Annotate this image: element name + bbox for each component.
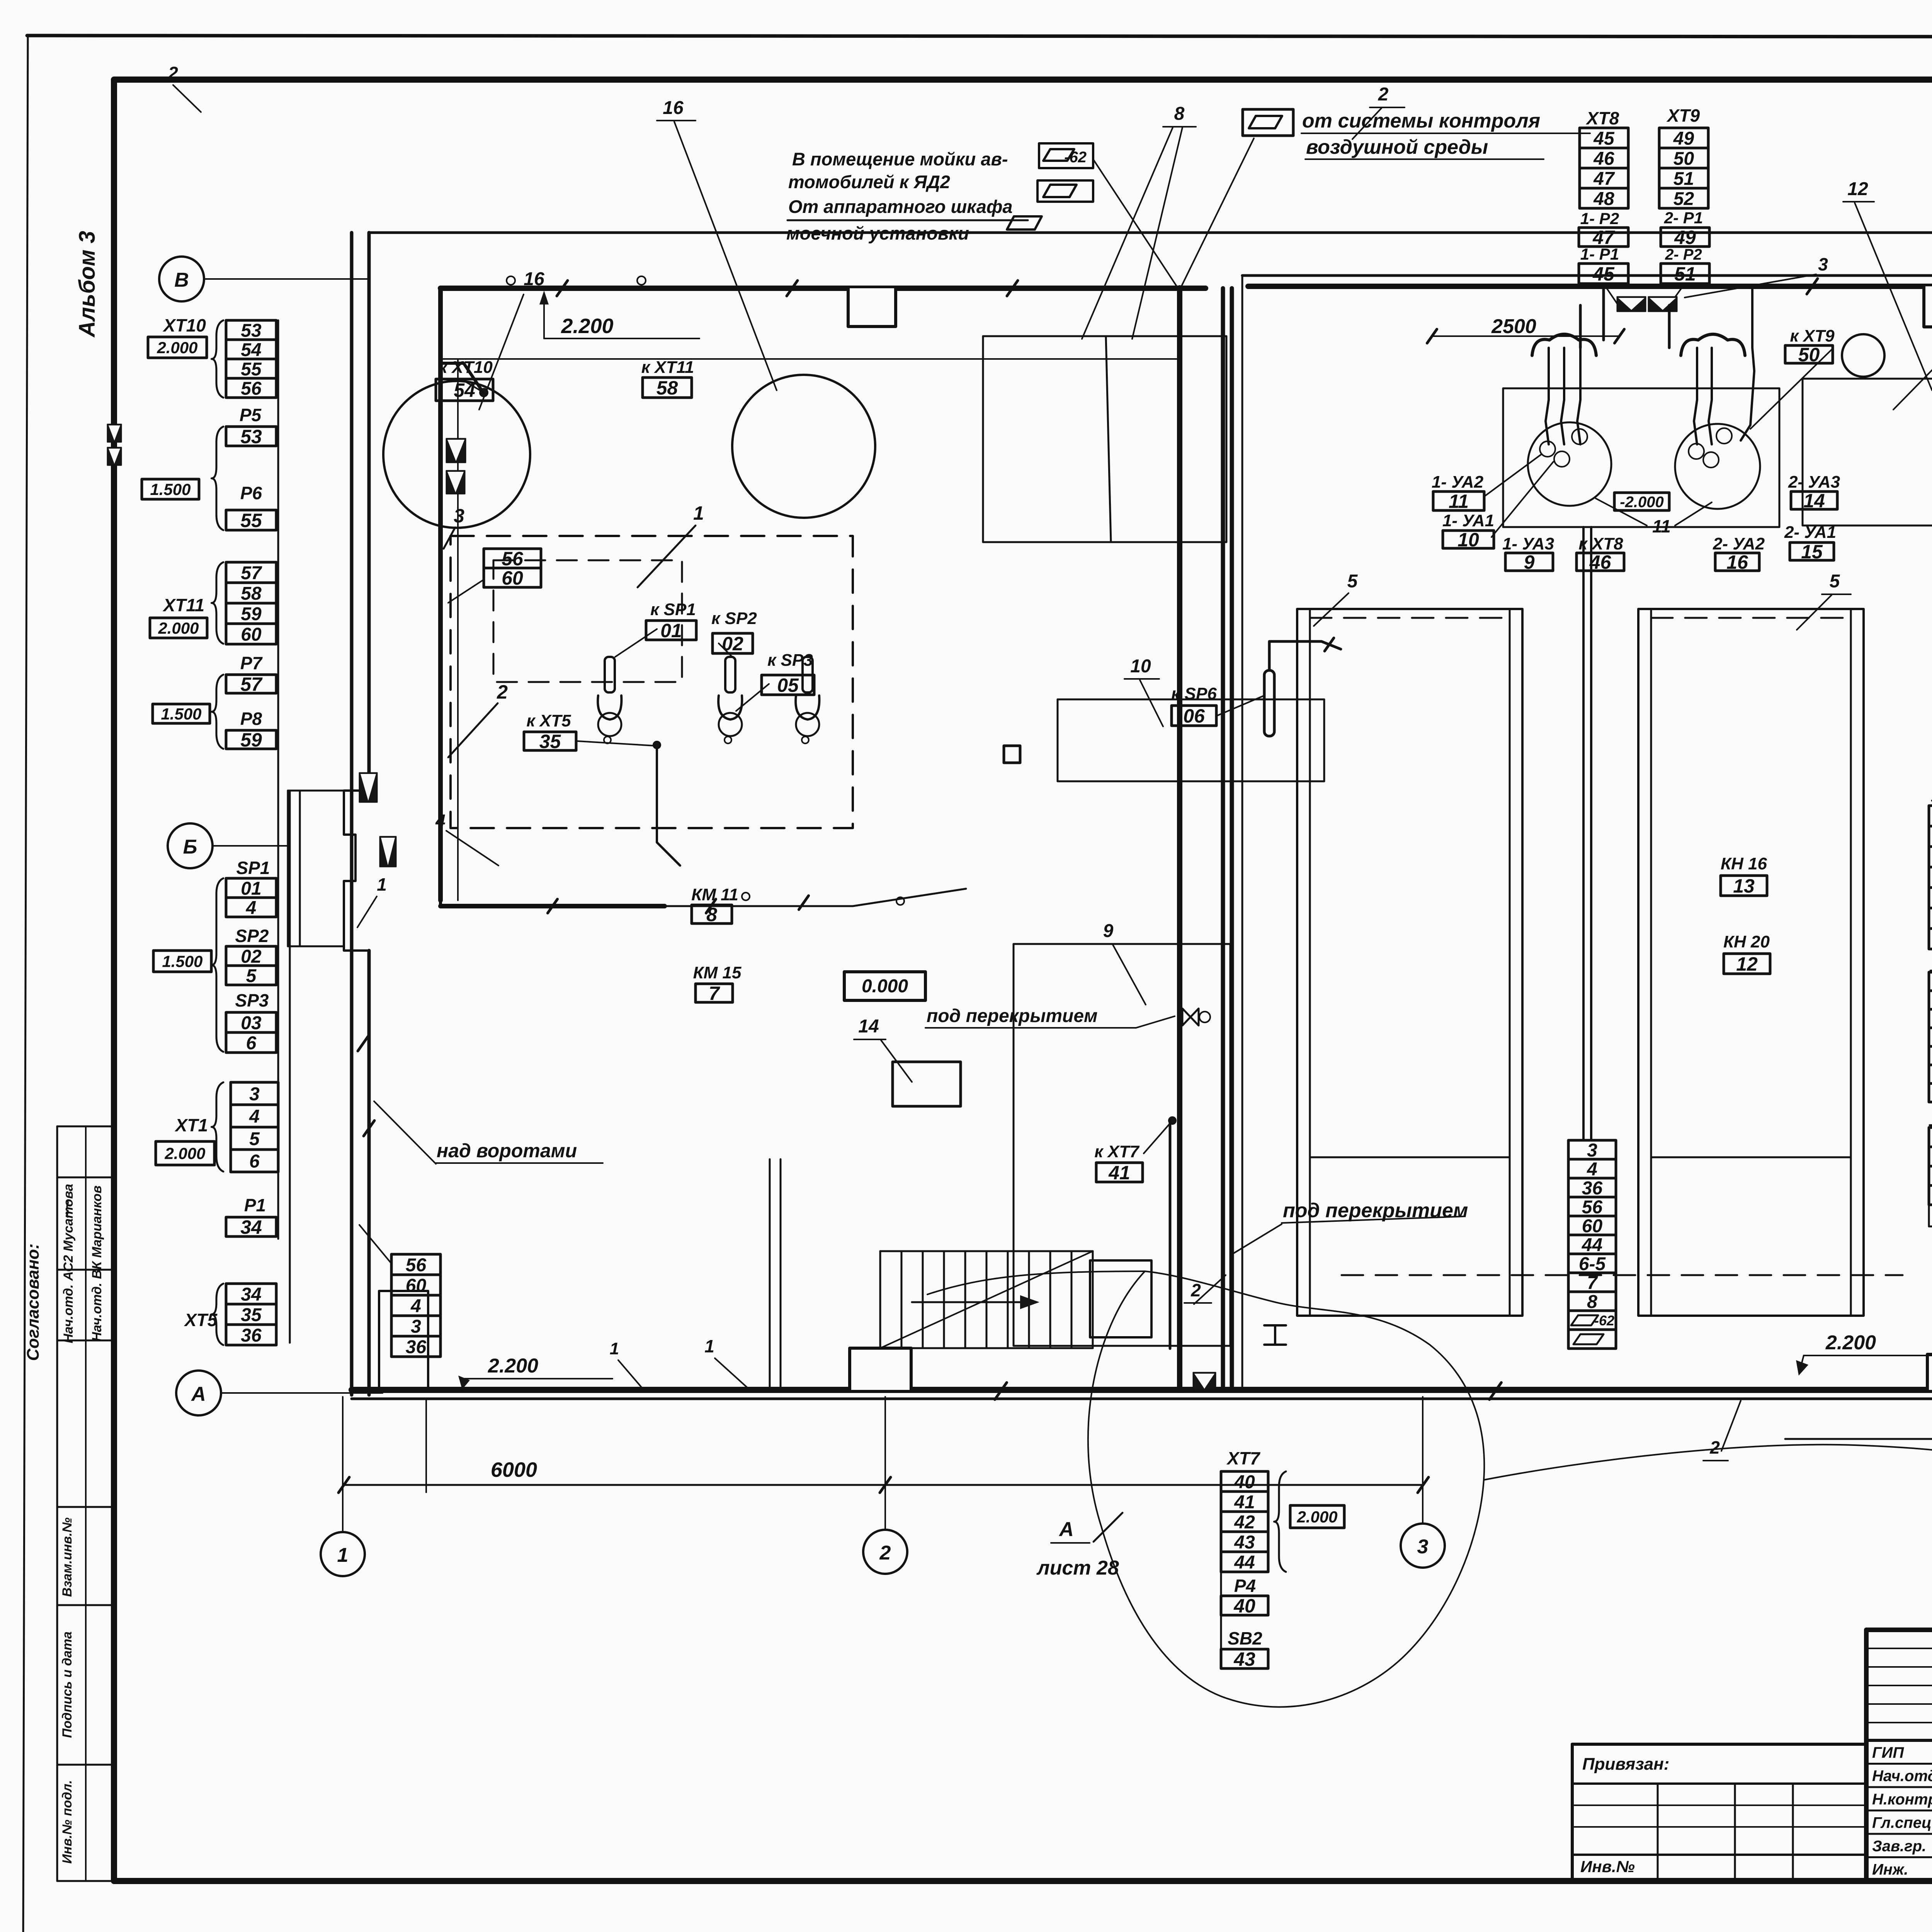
- leader 12 right: [1893, 354, 1932, 410]
- top cable tray center: [1248, 284, 1932, 289]
- svg-text:1.500: 1.500: [161, 705, 201, 723]
- svg-text:43: 43: [1234, 1532, 1255, 1553]
- freehand curve tail: [927, 1271, 1145, 1294]
- title thin row 4458: [1866, 1722, 1932, 1723]
- tank circle 2: [732, 375, 875, 518]
- label 2 cb underline: [1184, 1302, 1211, 1304]
- svg-text:2: 2: [497, 681, 508, 703]
- svg-text:2.000: 2.000: [156, 338, 197, 357]
- elevation box -2.000: [1614, 493, 1669, 510]
- terminal column AD1: [1929, 1128, 1932, 1206]
- leader 2 top left: [173, 85, 201, 112]
- bay annex wall left: [287, 791, 289, 946]
- svg-text:5: 5: [1347, 571, 1358, 592]
- privyazan col 4290: [1657, 1784, 1659, 1881]
- pilaster near grid A: [379, 1291, 428, 1390]
- leader 5 basin B: [1797, 595, 1832, 630]
- frame sleeve left 1: [107, 424, 121, 442]
- pump pit circle right: [1675, 424, 1760, 509]
- grid circle A: [176, 1371, 221, 1415]
- arrowhead 2.200 bl: [458, 1376, 470, 1389]
- svg-text:12: 12: [1736, 953, 1758, 975]
- label 5B underline: [1822, 594, 1851, 595]
- svg-text:48: 48: [1593, 189, 1614, 209]
- junction circle u2: [896, 897, 904, 905]
- svg-text:2: 2: [1378, 84, 1389, 105]
- svg-text:6-5: 6-5: [1579, 1254, 1606, 1274]
- connector column XT7: [1221, 1471, 1268, 1573]
- svg-text:SВ2: SВ2: [1228, 1628, 1262, 1648]
- freehand curve tail 2: [1484, 1445, 1932, 1484]
- svg-text:56: 56: [406, 1255, 427, 1276]
- air system underline 2: [1305, 158, 1544, 160]
- box 53 of P5: [226, 426, 276, 447]
- outer border left: [23, 36, 28, 1932]
- column SP2: [226, 946, 276, 986]
- riser cable left pit 1: [1561, 348, 1564, 444]
- svg-text:41: 41: [1234, 1492, 1255, 1512]
- right pit cable hood: [1681, 334, 1745, 355]
- svg-text:2.200: 2.200: [561, 315, 613, 338]
- svg-text:16: 16: [663, 98, 684, 118]
- header AD1 underline: [1930, 1124, 1932, 1126]
- svg-text:Инв.№: Инв.№: [1580, 1857, 1635, 1876]
- cable k XT5 drop: [657, 746, 680, 866]
- box 7 of KM15: [696, 983, 733, 1004]
- unit 1 dashed outline: [451, 536, 853, 828]
- label 14 underline: [854, 1039, 886, 1040]
- sensor SP1 symbol: [598, 657, 621, 743]
- junction small circle top2: [637, 276, 646, 285]
- title thin row 4410: [1866, 1703, 1932, 1705]
- elevation 2.200 br underline: [1804, 1355, 1932, 1356]
- svg-text:к SР3: к SР3: [767, 651, 813, 670]
- svg-text:-2.000: -2.000: [1620, 493, 1663, 510]
- pump pit rectangle: [1503, 388, 1779, 527]
- svg-text:55: 55: [241, 359, 262, 379]
- leader 11 left: [1596, 498, 1647, 526]
- left wall outer: [350, 233, 354, 1395]
- svg-text:02: 02: [241, 946, 262, 967]
- svg-text:40: 40: [1233, 1595, 1255, 1617]
- cable from SP6 up: [1269, 641, 1341, 670]
- partition wall left of center: [1242, 276, 1243, 1390]
- leader 1-UA2: [1484, 454, 1542, 497]
- svg-text:1- УА3: 1- УА3: [1502, 534, 1554, 553]
- svg-text:51: 51: [1674, 263, 1696, 285]
- svg-text:4: 4: [249, 1106, 260, 1127]
- air system box: [1243, 109, 1293, 136]
- svg-text:59: 59: [241, 604, 262, 624]
- brace SP: [211, 878, 223, 1052]
- grid leader V: [204, 278, 369, 280]
- box 11 of 1-UA2: [1433, 491, 1484, 512]
- leader chislo 1 bottom: [618, 1360, 641, 1387]
- arrowhead 2.200 br: [1796, 1360, 1808, 1376]
- svg-text:45: 45: [1592, 263, 1615, 285]
- annotation underline 3: [787, 219, 1028, 221]
- cable pair 3188: [1230, 288, 1234, 1390]
- unit 1 inner dashed: [493, 560, 682, 682]
- drop cable xt8: [1602, 288, 1605, 340]
- dim tick 2: [880, 1477, 891, 1493]
- svg-text:59: 59: [240, 729, 262, 751]
- drop cable kxt9: [1741, 288, 1754, 440]
- kxt7 dot: [1169, 1117, 1176, 1124]
- arrowhead 2.200 top: [539, 291, 549, 304]
- svg-text:Согласовано:: Согласовано:: [24, 1243, 43, 1361]
- svg-text:Р1: Р1: [244, 1195, 266, 1215]
- box 10 of 1-UA1: [1443, 529, 1494, 551]
- connector column XT5: [226, 1284, 276, 1346]
- svg-text:9: 9: [1103, 921, 1114, 941]
- riser cable right pit 0: [1694, 348, 1697, 444]
- privyazan row 4: [1572, 1854, 1866, 1856]
- pump pit circle left: [1528, 422, 1611, 506]
- svg-text:3: 3: [411, 1316, 421, 1337]
- svg-text:ХТ9: ХТ9: [1666, 105, 1700, 126]
- leader 8 b: [1132, 128, 1182, 339]
- privyazan row 1: [1572, 1782, 1866, 1785]
- connector column XT8: [1580, 128, 1628, 209]
- dim 2500 tick R: [1614, 329, 1624, 343]
- svg-text:49: 49: [1674, 227, 1696, 248]
- svg-text:05: 05: [777, 675, 799, 696]
- box 58 of k XT11: [643, 377, 692, 399]
- box 02 of k SP2: [713, 633, 753, 655]
- margin strip divider strip row a: [57, 1177, 114, 1179]
- svg-text:42: 42: [1234, 1512, 1255, 1532]
- header AS3 underline: [1930, 970, 1932, 972]
- room 12 left rectangle: [1803, 379, 1932, 526]
- svg-text:1: 1: [337, 1544, 349, 1566]
- svg-text:ХТ7: ХТ7: [1226, 1448, 1261, 1468]
- annotation leader A: [1093, 159, 1179, 289]
- svg-text:2: 2: [1709, 1437, 1720, 1458]
- privyazan top: [1572, 1743, 1866, 1746]
- box 49 of 2-P1: [1661, 227, 1709, 248]
- svg-text:8: 8: [1174, 104, 1185, 124]
- svg-text:ХТ11: ХТ11: [162, 595, 205, 615]
- annotation parallelogram 1: [1043, 149, 1074, 161]
- left pit cable hood: [1532, 334, 1596, 355]
- cable list row -62: [1568, 1311, 1616, 1330]
- svg-text:56: 56: [1582, 1197, 1603, 1218]
- leader 2 top right: [1352, 108, 1381, 139]
- svg-text:ХТ10: ХТ10: [162, 315, 206, 335]
- svg-text:53: 53: [240, 426, 262, 447]
- grid axis line 2: [884, 1397, 886, 1530]
- sensor SP6 symbol: [1264, 670, 1274, 736]
- cable pair 3165: [1221, 288, 1225, 1390]
- box 55 of P6: [226, 510, 276, 531]
- grid leader B: [213, 845, 287, 847]
- svg-text:2.000: 2.000: [1296, 1508, 1337, 1526]
- svg-text:2500: 2500: [1491, 315, 1536, 338]
- label 9 underline: [1097, 943, 1121, 945]
- svg-text:1.500: 1.500: [162, 952, 202, 971]
- svg-text:Привязан:: Привязан:: [1582, 1755, 1669, 1774]
- svg-text:14: 14: [1803, 490, 1825, 512]
- svg-text:5: 5: [1830, 571, 1840, 592]
- margin strip right line: [114, 1126, 116, 1881]
- floor drain sleeve 2: [1648, 297, 1677, 311]
- privyazan row 3: [1572, 1826, 1866, 1828]
- leader kXT9: [1750, 350, 1832, 429]
- riser cable left pit 2: [1577, 348, 1580, 444]
- margin strip divider strip row b: [57, 1269, 114, 1271]
- basin B inner right: [1850, 609, 1852, 1316]
- elevation 2.200 arrow: [543, 296, 545, 338]
- box 13 of KH16: [1721, 875, 1767, 897]
- tank circle 1: [383, 381, 530, 528]
- svg-text:11: 11: [1449, 491, 1469, 512]
- svg-text:SР3: SР3: [235, 990, 269, 1010]
- title row line 4: [1866, 1856, 1932, 1858]
- grid A axis right section: [1785, 1438, 1932, 1440]
- column SP3: [226, 1012, 276, 1053]
- left wall inner: [367, 233, 371, 791]
- cable shaft second line: [457, 359, 459, 900]
- equipment 8 divider: [1106, 336, 1111, 542]
- elevation 2.000 xt10: [148, 337, 207, 358]
- basin A inner right: [1509, 609, 1511, 1316]
- svg-text:2.000: 2.000: [158, 619, 199, 637]
- leader 14: [881, 1040, 912, 1082]
- top wall inner edge center-right: [1242, 274, 1932, 277]
- svg-text:51: 51: [1673, 168, 1694, 189]
- svg-text:КМ 11: КМ 11: [691, 885, 738, 904]
- svg-text:А: А: [1058, 1518, 1074, 1541]
- svg-text:02: 02: [722, 633, 743, 655]
- box 15 of 2-UA1: [1790, 541, 1834, 563]
- leader pod perekrytiem 2: [1233, 1224, 1282, 1254]
- svg-text:6000: 6000: [491, 1458, 537, 1481]
- svg-text:36: 36: [241, 1325, 262, 1346]
- elevation 2.200 bl underline: [460, 1378, 612, 1379]
- svg-text:Р5: Р5: [240, 405, 262, 425]
- svg-text:3: 3: [1587, 1140, 1597, 1161]
- leader 56-60: [448, 580, 484, 603]
- title thin row 4266: [1866, 1648, 1932, 1649]
- svg-text:2: 2: [1190, 1280, 1201, 1300]
- annotation leader B: [1181, 138, 1254, 287]
- svg-text:6: 6: [246, 1033, 257, 1053]
- title row line 3: [1866, 1833, 1932, 1835]
- svg-text:6: 6: [249, 1151, 260, 1172]
- svg-text:2: 2: [168, 63, 178, 83]
- bay annex wall right: [299, 791, 301, 946]
- top cable break 3: [1007, 281, 1018, 296]
- svg-text:Зав.гр.: Зав.гр.: [1872, 1838, 1926, 1855]
- leader 16 tank1: [479, 294, 524, 410]
- bottom door notch 2: [1927, 1354, 1932, 1390]
- svg-text:16: 16: [1726, 551, 1748, 573]
- pump outlet small circle R2: [1716, 428, 1732, 444]
- box 43 of SB2: [1221, 1648, 1268, 1670]
- svg-text:60: 60: [406, 1276, 427, 1296]
- left column spine: [277, 320, 279, 1239]
- label 8 underline: [1163, 126, 1196, 128]
- svg-text:2- УА3: 2- УА3: [1788, 473, 1840, 492]
- elevation 2.000 xt1: [156, 1141, 214, 1165]
- box 16 of 2-UA2: [1715, 551, 1759, 573]
- svg-text:Р6: Р6: [240, 483, 262, 503]
- svg-text:41: 41: [1108, 1162, 1130, 1184]
- wall sleeve at bay bottom: [380, 837, 396, 867]
- basin channel cable 2: [1590, 527, 1592, 1140]
- svg-text:16: 16: [524, 269, 544, 289]
- svg-text:ГИП: ГИП: [1872, 1744, 1904, 1761]
- leader k XT7: [1144, 1122, 1171, 1153]
- grid axis line 1: [342, 1397, 344, 1532]
- pump outlet small circle R1: [1703, 452, 1719, 468]
- svg-text:к SР1: к SР1: [650, 600, 696, 619]
- margin strip divider strip row f: [57, 1764, 114, 1766]
- wall sleeve at bay top: [359, 773, 377, 802]
- AD1 parallelogram row: [1929, 1205, 1932, 1226]
- box 12 of KH20: [1724, 953, 1770, 975]
- riser cable right pit 1: [1709, 348, 1712, 444]
- svg-text:к ХТ8: к ХТ8: [1578, 534, 1623, 553]
- svg-text:КМ 15: КМ 15: [693, 963, 742, 982]
- svg-text:4: 4: [1587, 1159, 1597, 1180]
- svg-text:КН 16: КН 16: [1721, 854, 1767, 873]
- basin B bottom line: [1651, 1156, 1851, 1158]
- svg-text:SР2: SР2: [235, 926, 269, 946]
- svg-text:56: 56: [241, 378, 262, 399]
- title thick row 4504: [1866, 1739, 1932, 1742]
- label 12L underline: [1843, 201, 1874, 202]
- cable end dot tank1: [480, 389, 488, 396]
- margin strip mid line: [85, 1126, 87, 1881]
- title thin row 4362: [1866, 1685, 1932, 1686]
- cable under unit1: [665, 889, 966, 906]
- margin strip divider strip row d: [57, 1506, 114, 1508]
- left column spine2: [289, 791, 291, 1343]
- svg-text:ХТ8: ХТ8: [1585, 108, 1619, 128]
- svg-text:к ХТ5: к ХТ5: [526, 711, 571, 730]
- svg-text:2- Р1: 2- Р1: [1664, 209, 1703, 227]
- basin A bottom line: [1310, 1156, 1510, 1158]
- svg-text:03: 03: [241, 1013, 262, 1033]
- top cable tray left hall: [440, 286, 1206, 291]
- svg-text:60: 60: [502, 567, 523, 589]
- equipment 8 rectangle: [983, 336, 1226, 542]
- svg-text:воздушной среды: воздушной среды: [1306, 136, 1488, 158]
- sensor SP2 symbol: [718, 657, 742, 743]
- section line vertical: [1177, 288, 1182, 1390]
- nad vorotami leader: [374, 1101, 436, 1164]
- svg-text:8: 8: [1587, 1292, 1597, 1312]
- svg-text:3: 3: [454, 505, 464, 527]
- junction small circle top1: [507, 276, 515, 285]
- small square item: [1004, 746, 1020, 763]
- drop cable right pit: [1668, 305, 1671, 348]
- svg-text:4: 4: [435, 811, 446, 831]
- title block outline: [1866, 1630, 1932, 1881]
- cable shaft vertical: [438, 288, 443, 900]
- svg-text:40: 40: [1234, 1472, 1255, 1492]
- elevation 0.000 outer: [844, 972, 925, 1000]
- svg-text:56: 56: [502, 548, 524, 570]
- svg-text:54: 54: [454, 379, 475, 401]
- svg-text:49: 49: [1673, 128, 1694, 149]
- svg-text:9: 9: [1524, 551, 1535, 573]
- cable list row para: [1568, 1330, 1616, 1349]
- svg-text:1.500: 1.500: [150, 480, 190, 498]
- label A underline: [1051, 1542, 1090, 1544]
- svg-text:КН 20: КН 20: [1723, 932, 1770, 951]
- arrow 2.200 br line: [1799, 1355, 1804, 1373]
- leader 2 shaft: [448, 703, 498, 757]
- leader 16 tank2: [674, 122, 777, 390]
- top door notch center: [1924, 286, 1932, 327]
- svg-text:лист 28: лист 28: [1036, 1557, 1119, 1579]
- svg-text:ХТ5: ХТ5: [184, 1310, 218, 1330]
- svg-text:В помещение мойки ав-: В помещение мойки ав-: [792, 149, 1008, 169]
- title row line 1: [1866, 1786, 1932, 1788]
- nad vorotami underline: [436, 1162, 603, 1164]
- box 41 of k XT7: [1096, 1162, 1143, 1184]
- shaft sleeve 2: [446, 471, 465, 494]
- basin A top dashed: [1310, 617, 1510, 619]
- grid leader A: [221, 1392, 383, 1394]
- svg-text:2.200: 2.200: [1825, 1332, 1876, 1354]
- svg-text:4: 4: [410, 1296, 421, 1316]
- svg-text:57: 57: [240, 673, 263, 695]
- box 40 of P4: [1221, 1595, 1268, 1617]
- svg-text:57: 57: [241, 563, 262, 583]
- title row line 5: [1866, 1880, 1932, 1882]
- svg-text:34: 34: [241, 1284, 261, 1305]
- grid circle 2: [863, 1530, 907, 1574]
- elevation 2.000 xt11: [150, 618, 207, 638]
- svg-text:Альбом 3: Альбом 3: [75, 231, 100, 338]
- cable list parallelogram b: [1573, 1334, 1604, 1344]
- leader 10: [1140, 680, 1163, 726]
- svg-text:01: 01: [660, 620, 682, 641]
- partition wall x1992: [769, 1159, 771, 1390]
- left wall bay outline: [344, 791, 369, 951]
- svg-text:10: 10: [1458, 529, 1479, 551]
- pump outlet small circle L2: [1572, 429, 1587, 444]
- leader 3 shaft: [444, 527, 455, 549]
- connector column XT11: [226, 562, 276, 645]
- bottom wall sleeve center: [1193, 1372, 1216, 1390]
- title row line 0: [1866, 1763, 1932, 1765]
- bottom cable break 2: [995, 1383, 1007, 1400]
- svg-text:2.000: 2.000: [164, 1145, 205, 1163]
- svg-text:Р4: Р4: [1234, 1576, 1256, 1596]
- bay annex bottom: [288, 946, 344, 947]
- svg-text:01: 01: [241, 878, 261, 899]
- grid circle B: [168, 823, 213, 868]
- svg-text:2.200: 2.200: [488, 1355, 538, 1377]
- svg-text:3: 3: [249, 1084, 260, 1104]
- small circle right of kXT9: [1842, 334, 1884, 377]
- box 50 of k XT9: [1785, 344, 1833, 366]
- top cable break 4: [1807, 279, 1818, 294]
- box 51 of 2-P2: [1661, 263, 1709, 285]
- leader pod perekrytiem 1: [1136, 1016, 1175, 1028]
- brace XT1: [211, 1082, 223, 1172]
- leader 12 left: [1855, 203, 1932, 390]
- svg-text:13: 13: [1733, 875, 1755, 897]
- svg-text:ХТ1: ХТ1: [174, 1115, 208, 1135]
- leader kSP1: [615, 629, 657, 657]
- svg-text:10: 10: [1130, 656, 1151, 677]
